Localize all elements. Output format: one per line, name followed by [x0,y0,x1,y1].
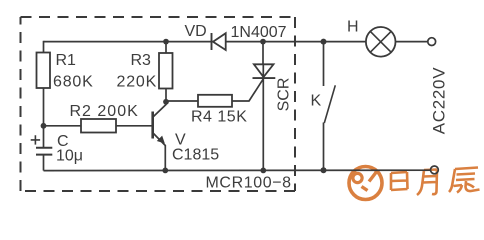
SCR cathode lead to bottom rail [262,78,264,170]
SCR vertical through line [262,64,264,77]
lamp H cross [370,31,391,52]
wire R1 top lead [43,41,45,53]
svg-text:1N4007: 1N4007 [231,24,287,41]
wire R4 to SCR gate [232,79,264,101]
SCR cathode bar [253,77,276,79]
svg-text:R3: R3 [131,52,152,69]
switch K lower lead [323,123,325,171]
SCR anode lead [262,42,264,65]
node junction R1/R2/C [41,123,47,129]
svg-text:MCR100−8: MCR100−8 [206,175,292,192]
wire bottom rail [44,169,431,171]
resistor R1 [37,53,51,89]
node junction lamp branch top rail [321,39,327,45]
resistor R3 [159,53,173,89]
switch K upper lead [323,42,325,86]
node junction SCR bottom rail [260,168,266,174]
wire R2 to transistor base [116,125,152,127]
lamp H circle [366,27,396,57]
capacitor C bottom lead [43,155,45,171]
node junction switch bottom rail [321,167,327,173]
node junction SCR top rail [260,39,266,45]
svg-text:C1815: C1815 [172,147,219,164]
svg-text:220K: 220K [117,74,158,91]
dashed enclosure box MCR100-8 module [21,17,296,191]
svg-text:AC220V: AC220V [430,67,449,135]
transistor V base bar [151,112,154,139]
capacitor C plus sign [31,135,40,144]
SCR triangle [254,64,274,77]
svg-text:R4 15K: R4 15K [191,109,247,126]
svg-text:10μ: 10μ [56,148,83,165]
resistor R4 [198,95,232,107]
diode VD cathode bar [211,33,213,50]
svg-text:VD: VD [185,23,207,40]
transistor V collector lead [154,102,167,117]
node junction R3 top rail [163,39,169,45]
svg-text:H: H [347,19,359,36]
resistor R2 [81,119,116,133]
svg-text:R2 200K: R2 200K [70,103,139,120]
switch K blade [324,85,335,123]
resistor R3 top lead [165,42,167,53]
wire node to R2 [44,125,82,127]
node junction collector/R3/R4 [163,99,169,105]
watermark logo circle [349,167,382,200]
wire node to R4 [166,100,198,102]
wire lamp to top-right terminal [396,41,428,43]
transistor V emitter arrowhead [158,137,164,143]
watermark char 辰 [449,168,480,193]
capacitor C lead from node [43,126,45,148]
watermark char 日 [391,172,408,190]
wire top rail from R1 top to lamp [44,41,367,43]
terminal top-right [428,38,436,46]
capacitor C plates [36,148,52,155]
svg-text:R1: R1 [56,52,77,69]
svg-text:680K: 680K [53,74,94,91]
diode VD triangle [213,33,226,50]
svg-text:K: K [311,93,322,110]
wire R3 bottom lead to collector node [165,89,167,103]
node junction emitter bottom rail [162,168,168,174]
wire R1 bottom lead to node [43,88,45,126]
svg-text:SCR: SCR [276,78,293,112]
watermark char 月 [417,170,437,196]
transistor V emitter lead with arrow [154,134,166,171]
terminal bottom-right [431,166,439,174]
